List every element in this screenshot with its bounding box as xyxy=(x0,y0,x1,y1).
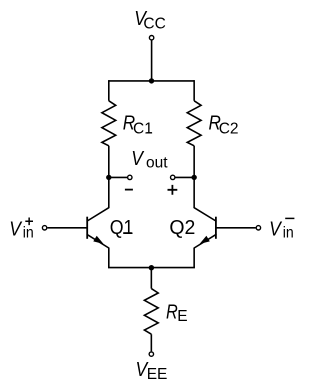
wire Q2 base to terminal xyxy=(216,227,256,229)
svg-text:C2: C2 xyxy=(219,121,239,138)
wire left branch lower lead xyxy=(108,146,110,208)
label Vin+ xyxy=(9,218,34,242)
wire RE lower lead xyxy=(150,334,152,351)
svg-text:in: in xyxy=(23,225,34,242)
label RC2 xyxy=(209,112,239,137)
svg-text:Q1: Q1 xyxy=(110,217,134,239)
wire Vin+ to Q1 base xyxy=(48,227,88,229)
resistor RC1 xyxy=(102,101,116,146)
terminal Vin- xyxy=(256,226,260,230)
junction bottom xyxy=(149,265,154,270)
resistor RC2 xyxy=(187,101,201,146)
svg-text:Q2: Q2 xyxy=(169,217,195,239)
label Vin- xyxy=(269,218,294,241)
junction top xyxy=(149,78,154,83)
svg-text:E: E xyxy=(177,308,187,325)
wire Vout plus stub xyxy=(175,176,194,178)
label VEE xyxy=(136,359,168,383)
svg-text:EE: EE xyxy=(147,366,168,383)
label VCC xyxy=(134,8,165,32)
label RC1 xyxy=(123,112,153,137)
resistor RE xyxy=(144,289,158,335)
wire Vout minus stub xyxy=(109,176,128,178)
wire right branch upper lead xyxy=(193,80,195,101)
svg-text:V: V xyxy=(9,219,22,241)
label RE xyxy=(166,301,188,325)
svg-text:out: out xyxy=(146,155,168,172)
wire left branch upper lead xyxy=(108,80,110,101)
svg-text:in: in xyxy=(283,225,294,242)
svg-text:CC: CC xyxy=(143,16,165,33)
wire Q2 emitter lead xyxy=(193,248,195,268)
wire top rail xyxy=(109,80,194,82)
terminal Vin+ xyxy=(42,226,46,230)
node Vout plus xyxy=(191,175,196,180)
label minus xyxy=(125,189,133,191)
wire bottom rail xyxy=(109,266,194,269)
wire right branch lower lead xyxy=(193,146,195,208)
terminal Vout plus xyxy=(171,175,175,179)
terminal Vout minus xyxy=(128,175,132,179)
svg-text:V: V xyxy=(131,148,144,170)
svg-text:C1: C1 xyxy=(133,121,153,138)
transistor Q1 xyxy=(87,208,109,248)
node VCC terminal xyxy=(149,36,153,40)
transistor Q2 xyxy=(194,208,216,248)
wire VCC stem xyxy=(151,40,153,81)
node Vout minus xyxy=(106,175,111,180)
label Q1 xyxy=(110,217,134,239)
node VEE terminal xyxy=(149,352,153,356)
label plus xyxy=(168,185,178,195)
wire RE upper lead xyxy=(150,268,152,289)
svg-text:R: R xyxy=(166,301,178,323)
label Vout xyxy=(131,148,168,172)
svg-text:V: V xyxy=(269,219,282,241)
wire Q1 emitter lead xyxy=(108,248,110,268)
